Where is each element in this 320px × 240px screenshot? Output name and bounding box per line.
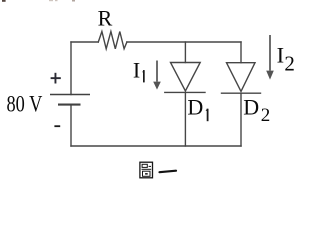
- svg-text:2: 2: [261, 105, 271, 126]
- svg-text:I: I: [277, 43, 285, 68]
- svg-text:80 V: 80 V: [7, 91, 43, 116]
- svg-text:D: D: [243, 95, 259, 120]
- svg-text:D: D: [187, 95, 203, 120]
- svg-text:I: I: [133, 57, 140, 82]
- svg-text:2: 2: [284, 51, 295, 75]
- svg-text:R: R: [98, 5, 113, 30]
